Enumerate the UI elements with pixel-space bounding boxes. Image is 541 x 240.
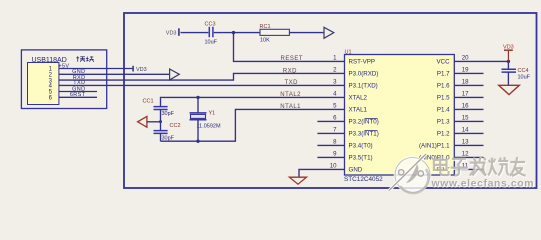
svg-text:10uF: 10uF — [205, 39, 218, 45]
svg-text:GND: GND — [349, 167, 363, 174]
svg-text:+5V: +5V — [58, 63, 69, 69]
svg-text:CC1: CC1 — [143, 99, 154, 105]
svg-text:STC12C4052: STC12C4052 — [344, 176, 383, 183]
svg-text:10uF: 10uF — [518, 74, 531, 80]
svg-text:RXD: RXD — [283, 68, 297, 74]
svg-text:P3.1(TXD): P3.1(TXD) — [349, 83, 378, 90]
svg-text:P3.3(INT1): P3.3(INT1) — [349, 131, 379, 138]
svg-text:NTAL2: NTAL2 — [280, 92, 301, 98]
svg-text:TXD: TXD — [73, 80, 85, 86]
svg-text:P1.7: P1.7 — [437, 71, 450, 78]
svg-text:30pF: 30pF — [162, 111, 175, 117]
svg-text:CC3: CC3 — [205, 22, 216, 28]
svg-text:13: 13 — [462, 139, 469, 146]
svg-text:12: 12 — [462, 151, 469, 158]
svg-text:10: 10 — [330, 163, 337, 170]
svg-text:P1.4: P1.4 — [437, 107, 450, 114]
svg-text:11.0592M: 11.0592M — [197, 124, 221, 130]
svg-text:VD3: VD3 — [166, 30, 177, 36]
svg-text:20: 20 — [462, 55, 469, 62]
svg-text:18: 18 — [462, 79, 469, 86]
svg-text:VCC: VCC — [437, 59, 451, 66]
svg-text:VD3: VD3 — [136, 67, 147, 73]
svg-text:30pF: 30pF — [162, 136, 175, 142]
svg-text:P1.6: P1.6 — [437, 83, 450, 90]
svg-text:17: 17 — [462, 91, 469, 98]
svg-text:CC2: CC2 — [170, 123, 181, 129]
svg-text:P1.5: P1.5 — [437, 95, 450, 102]
svg-text:P3.0(RXD): P3.0(RXD) — [349, 71, 379, 78]
svg-text:14: 14 — [462, 127, 469, 134]
svg-text:15: 15 — [462, 115, 469, 122]
svg-text:RC1: RC1 — [260, 24, 271, 30]
svg-text:P1.3: P1.3 — [437, 119, 450, 126]
svg-text:19: 19 — [462, 67, 469, 74]
svg-text:CC4: CC4 — [518, 68, 529, 74]
svg-text:P1.2: P1.2 — [437, 131, 450, 138]
svg-text:RESET: RESET — [280, 56, 303, 62]
svg-text:16: 16 — [462, 103, 469, 110]
svg-text:P3.5(T1): P3.5(T1) — [349, 155, 373, 162]
svg-text:P3.4(T0): P3.4(T0) — [349, 143, 373, 150]
svg-text:Y1: Y1 — [209, 111, 216, 117]
svg-text:6RST: 6RST — [70, 92, 86, 98]
svg-text:XTAL2: XTAL2 — [349, 95, 368, 102]
svg-text:www.elecfans.com: www.elecfans.com — [431, 179, 534, 190]
svg-text:(AIN1)P1.1: (AIN1)P1.1 — [419, 143, 450, 150]
svg-text:VD3: VD3 — [503, 45, 514, 51]
svg-text:RST-VPP: RST-VPP — [349, 59, 375, 66]
svg-text:XTAL1: XTAL1 — [349, 107, 368, 114]
svg-text:TXD: TXD — [285, 80, 299, 86]
svg-text:10K: 10K — [260, 38, 270, 44]
svg-text:NTAL1: NTAL1 — [280, 104, 301, 110]
svg-text:P3.2(INT0): P3.2(INT0) — [349, 119, 379, 126]
svg-text:U1: U1 — [345, 49, 352, 55]
